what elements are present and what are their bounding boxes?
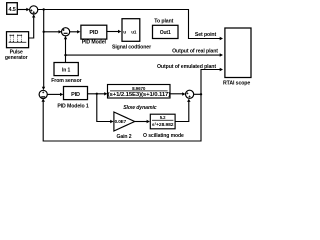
wire 4.5 to sum1	[17, 8, 29, 11]
svg-text:0.0E7: 0.0E7	[115, 119, 127, 124]
label Pulse generator	[5, 50, 28, 61]
wire sum4 output to junction	[194, 93, 201, 95]
svg-text:From sensor: From sensor	[51, 78, 81, 84]
svg-text:RTAI scope: RTAI scope	[223, 81, 250, 87]
RTAI scope block	[225, 28, 251, 78]
constant block 4.5	[7, 3, 18, 15]
wire branch down to gain2	[97, 94, 114, 123]
svg-text:PID: PID	[71, 92, 80, 98]
wire sum2 to PID1	[70, 30, 81, 33]
svg-text:generator: generator	[5, 55, 28, 61]
sum junction S2 real loop error	[62, 28, 70, 36]
transfer fcn block slow dynamic	[108, 85, 171, 99]
pulse generator block	[7, 32, 29, 48]
wire PID1 to signal conditioner	[107, 30, 122, 33]
node junction to real loop sum2	[43, 31, 45, 33]
PID controller block emulated	[64, 87, 88, 100]
wire slow dynamic to sum4	[170, 92, 186, 95]
svg-text:In 1: In 1	[62, 67, 71, 73]
sum junction S4 emulated plant output	[186, 90, 194, 98]
svg-text:s²+28.982: s²+28.982	[152, 122, 174, 128]
svg-text:PID Modelo 1: PID Modelo 1	[57, 104, 89, 110]
wire gain2 to oscillating block	[135, 120, 150, 123]
sum junction S1 set point sum	[30, 6, 38, 14]
wire pulse generator to sum1	[29, 14, 36, 38]
wire set point vertical branch down to emulated loop	[42, 10, 45, 91]
wire output of emulated plant to scope	[201, 68, 223, 95]
wire branch to sum2	[44, 30, 62, 33]
svg-text:8.9670: 8.9670	[132, 86, 146, 91]
wire sum3 to PID2	[47, 93, 63, 96]
svg-text:Output of emulated plant: Output of emulated plant	[157, 64, 216, 70]
svg-text:Out1: Out1	[160, 30, 171, 36]
signal conditioner block	[122, 19, 140, 42]
wire PID2 to slow dynamic	[88, 92, 108, 95]
svg-text:Signal codtioner: Signal codtioner	[112, 44, 151, 50]
svg-text:PID: PID	[89, 30, 98, 36]
svg-text:Output of real plant: Output of real plant	[172, 48, 218, 54]
svg-text:PID Model: PID Model	[82, 39, 107, 45]
wire output of real plant to scope	[66, 53, 224, 56]
sum junction S3 emulated loop error	[39, 90, 47, 98]
PID controller block real plant	[81, 25, 107, 39]
svg-text:(s+1/2.15E3)(s+1/0.117): (s+1/2.15E3)(s+1/0.117)	[108, 92, 171, 98]
svg-text:Gain 2: Gain 2	[117, 134, 132, 140]
svg-text:4.5: 4.5	[8, 7, 15, 13]
svg-text:5.2: 5.2	[160, 115, 166, 120]
svg-text:Set point: Set point	[195, 32, 217, 38]
wire emulated feedback to sum3	[42, 94, 202, 141]
svg-text:O scillating mode: O scillating mode	[143, 133, 184, 139]
svg-text:u1: u1	[131, 29, 137, 34]
svg-text:To plant: To plant	[154, 18, 173, 24]
wire set point line to scope	[38, 10, 223, 41]
svg-text:Slow dynamic: Slow dynamic	[123, 105, 157, 111]
svg-text:u: u	[123, 29, 126, 34]
wire oscillating block up to sum4	[175, 99, 190, 122]
gain block Gain 2	[114, 112, 135, 131]
outport block Out1 To plant	[153, 25, 179, 38]
transfer fcn block oscillating mode	[150, 114, 175, 129]
node PID2 output junction	[96, 93, 98, 95]
node emulated output junction	[200, 93, 202, 95]
inport block In 1 From sensor	[54, 63, 78, 76]
node set point branch junction	[43, 8, 45, 10]
wire In1 up to sum2	[64, 36, 67, 63]
node sensor branch junction	[64, 54, 66, 56]
